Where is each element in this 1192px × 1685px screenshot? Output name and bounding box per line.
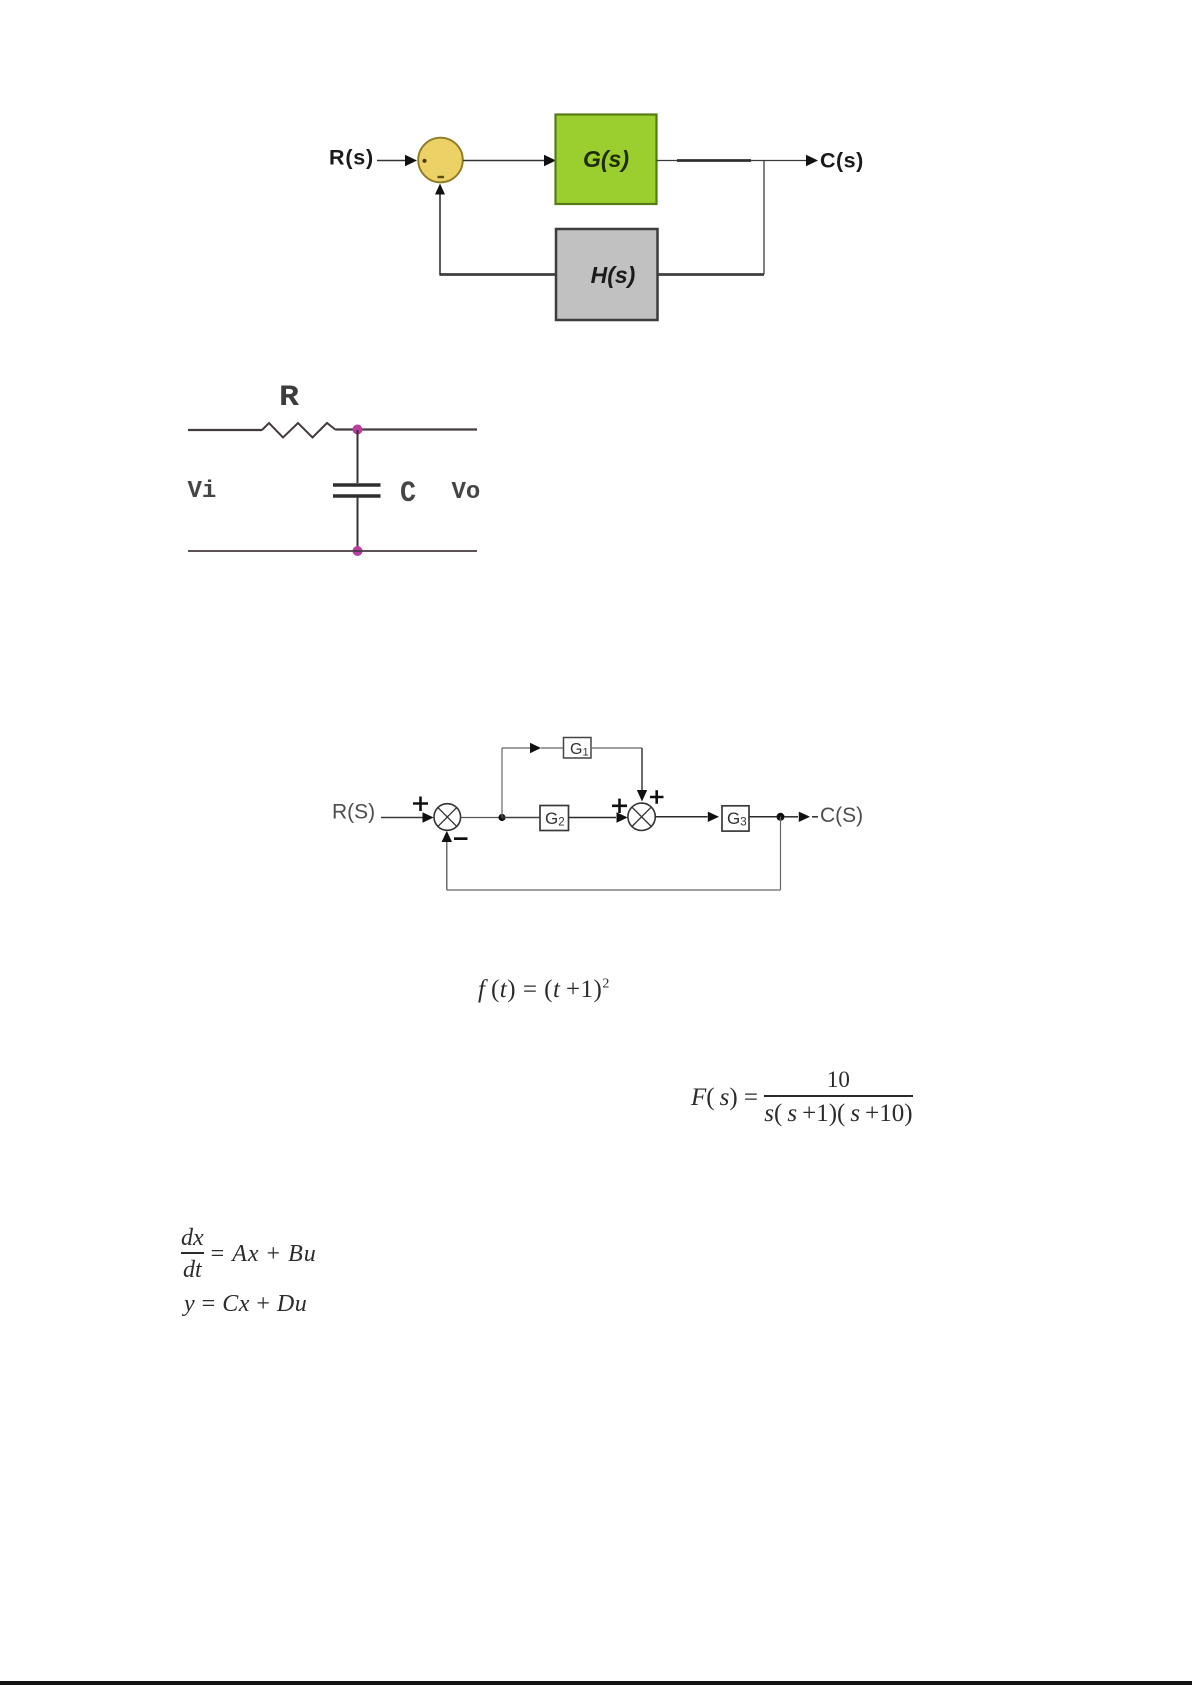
RC circuit xyxy=(170,375,500,575)
wire feedback bottom xyxy=(447,889,781,891)
wire G3 to node B xyxy=(749,816,781,818)
arrowhead to C(S) xyxy=(799,812,810,822)
arrowhead into S2 xyxy=(617,812,628,822)
plus sign G2 input xyxy=(612,799,627,813)
wire top branch to G1 xyxy=(502,747,530,749)
formula state equation 1 xyxy=(181,1225,317,1284)
summing junction S1 xyxy=(418,138,463,183)
wire S2 to G3 xyxy=(655,816,707,818)
plus sign input xyxy=(413,797,428,812)
wire after arrow xyxy=(812,816,818,818)
wire feedback up xyxy=(439,194,441,276)
arrowhead up into S1 xyxy=(442,831,452,842)
block G1 xyxy=(564,738,592,759)
svg-text:C(S): C(S) xyxy=(820,804,863,827)
wire node A up xyxy=(501,748,503,818)
arrowhead into summer xyxy=(405,155,417,166)
wire S1 to node A xyxy=(461,817,502,819)
wire node A to G2 xyxy=(502,817,540,819)
svg-text:R(s): R(s) xyxy=(329,146,374,170)
resistor R zigzag xyxy=(262,423,336,438)
wire G(s) output xyxy=(657,160,811,162)
wire feedback up into S1 xyxy=(446,842,448,890)
block G(s) xyxy=(556,115,657,205)
junction node bottom xyxy=(353,546,363,556)
formula F(s) xyxy=(691,1067,913,1128)
footer rule xyxy=(0,1681,1192,1685)
capacitor C top plate xyxy=(333,483,381,486)
svg-text:C: C xyxy=(400,477,416,511)
arrowhead toward G1 xyxy=(530,743,541,753)
node B dot xyxy=(777,813,785,821)
formula state equation 2 xyxy=(184,1291,307,1318)
wire G1 to corner xyxy=(591,747,642,749)
block diagram 2 xyxy=(325,725,880,905)
wire top left xyxy=(188,429,262,431)
arrowhead into G(s) xyxy=(544,155,556,166)
wire summer to G(s) xyxy=(463,160,546,162)
svg-text:G(s): G(s) xyxy=(583,146,629,172)
S1 cross xyxy=(438,808,457,827)
svg-text:R(S): R(S) xyxy=(332,801,375,824)
arrowhead into summer 1 xyxy=(423,812,434,822)
S2 cross xyxy=(632,807,651,826)
summing junction S1 xyxy=(434,804,461,831)
wire R(S) to summer xyxy=(381,817,423,819)
arrowhead down into S2 xyxy=(637,790,647,802)
svg-text:C(s): C(s) xyxy=(820,149,864,173)
wire H(s) to feedback xyxy=(440,273,556,276)
arrowhead into G3 xyxy=(708,812,719,822)
wire node B right xyxy=(784,816,798,818)
svg-text:Vo: Vo xyxy=(452,479,481,506)
block G3 xyxy=(722,806,749,831)
plus sign G1 input xyxy=(650,790,664,803)
wire to capacitor xyxy=(357,430,359,483)
wire R(s) to summer xyxy=(377,160,406,162)
wire corner down to S2 xyxy=(641,748,643,790)
arrowhead to C(s) xyxy=(806,155,818,166)
minus sign feedback xyxy=(454,837,468,840)
block H(s) xyxy=(556,229,658,320)
wire bottom xyxy=(188,550,477,552)
capacitor C bottom plate xyxy=(333,494,381,497)
svg-text:R: R xyxy=(279,381,299,415)
node A dot xyxy=(498,814,505,821)
formula f(t) xyxy=(478,976,610,1004)
wire capacitor to bottom xyxy=(357,497,359,551)
wire junction down xyxy=(763,161,765,275)
minus mark xyxy=(438,176,445,178)
wire to H(s) right xyxy=(657,273,764,276)
svg-text:H(s): H(s) xyxy=(591,262,636,288)
svg-text:Vi: Vi xyxy=(188,478,217,505)
wire thick segment xyxy=(677,159,751,162)
arrowhead into summer bottom xyxy=(435,184,445,195)
junction node top xyxy=(353,425,363,435)
plus mark xyxy=(422,159,426,163)
wire into G1 xyxy=(541,747,564,749)
wire top right xyxy=(336,428,477,430)
wire node B down xyxy=(780,817,782,890)
block G2 xyxy=(540,806,569,831)
block diagram 1 xyxy=(300,95,900,335)
wire G2 to S2 xyxy=(569,817,617,819)
summing junction S2 xyxy=(628,803,655,830)
